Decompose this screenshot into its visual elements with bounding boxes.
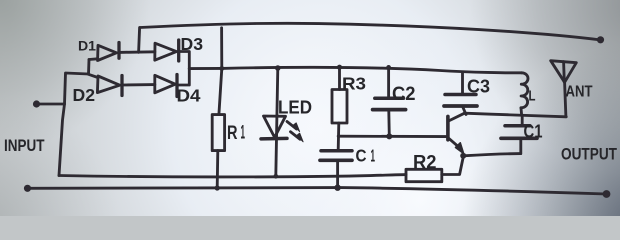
wire D2 to D4 [122,83,155,86]
LED symbol [264,116,286,137]
wire bridge left zig [59,60,89,176]
svg-text:R2: R2 [413,152,437,174]
svg-text:INPUT: INPUT [4,136,45,155]
wire D2 anode [89,74,98,77]
wire R3 top stub [338,67,341,89]
wire line A mid horizontal [59,175,406,177]
wire D3 cathode to bridge out [179,52,190,69]
svg-text:L: L [529,88,536,105]
capacitor C3 [445,93,476,97]
resistor R3 [332,90,347,124]
wire bridge out to main vertical [189,67,222,70]
wire LED branch vertical [276,68,278,176]
wire D1 to D3 [119,50,155,53]
resistor R1 [212,115,224,151]
wire emitter to C1 right [463,154,520,156]
capacitor C1 left [321,149,352,153]
svg-text:D1: D1 [78,38,96,54]
antenna ANT [551,61,577,83]
capacitor C2 [375,97,404,101]
wire D1 anode [89,57,98,61]
wire base line [338,135,446,138]
node input minus terminal [24,185,31,192]
wire R3 bottom to C1 [337,123,340,150]
diode D4 [155,75,176,93]
node emitter junction [460,153,466,159]
node second rail at main vertical [219,66,224,71]
wire bottom rail [28,187,607,194]
capacitor C1 right [505,124,530,128]
transistor Q1 emitter [449,139,460,149]
node bottom rail right terminal [603,190,611,198]
wire C2 top stub [387,67,390,96]
wire C1 right bottom stub [519,140,522,154]
svg-text:C3: C3 [467,77,490,97]
node LED line A junction [274,174,279,179]
wire R1 lower stub [216,151,219,188]
wire C3 top stub [461,73,464,93]
wire D4 cathode to bridge out [177,69,189,85]
node C2 top junction [386,65,391,70]
svg-text:1: 1 [371,146,376,166]
node R3 top junction [337,65,342,70]
node C1 bottom rail junction [334,185,340,191]
svg-text:C2: C2 [392,84,416,105]
wire second rail [222,67,522,72]
svg-text:C1: C1 [524,122,543,142]
LED arrow 1 [287,122,297,130]
svg-text:ANT: ANT [566,84,593,101]
wire collector line [465,113,567,117]
diode D2 [97,76,119,93]
svg-text:D2: D2 [73,85,96,105]
wire C1 right top stub [521,116,524,125]
wire top rail [140,23,601,40]
svg-text:1: 1 [241,123,246,144]
svg-text:D3: D3 [181,34,204,54]
wire R2 right to emitter node [442,157,463,174]
node C2 bottom junction [386,133,392,139]
wire input plus lead [37,103,65,106]
wire L bottom stub [520,108,523,115]
svg-text:D4: D4 [177,86,201,106]
transistor Q1 base bar [446,116,450,139]
node input plus terminal [33,100,40,107]
wire bridge top tap to top rail [139,28,140,53]
svg-text:LED: LED [278,97,312,118]
svg-text:R: R [227,123,238,144]
wire antenna riser [565,82,566,116]
svg-text:R3: R3 [342,74,366,94]
inductor L [521,73,528,108]
wire C2 bottom stub [387,111,390,136]
node top rail right terminal [597,36,604,43]
LED arrow 2 [291,132,301,140]
svg-text:OUTPUT: OUTPUT [561,145,617,164]
svg-text:C: C [356,146,367,166]
transistor Q1 collector [449,113,465,121]
wire C1 bottom stub [336,162,339,188]
diode D3 [155,43,177,60]
diode D1 [98,45,117,60]
node R1 bottom junction [215,185,220,190]
wire C3 bottom stub [463,108,466,115]
wire main vertical upper [219,28,222,115]
node LED top junction [275,65,281,71]
resistor R2 [406,169,442,181]
